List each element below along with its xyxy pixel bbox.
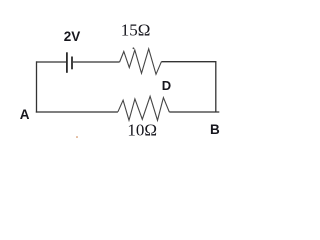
wire battery to resistor 15ohm <box>73 61 120 63</box>
wire left vertical (A side) <box>36 61 38 112</box>
svg-text:10Ω: 10Ω <box>127 120 157 139</box>
svg-text:A: A <box>20 107 30 122</box>
battery 2V cell: short plate <box>71 57 73 70</box>
wire resistor 10ohm to node B corner <box>169 111 219 113</box>
stray dot artifact <box>76 136 78 138</box>
wire resistor 15ohm to top-right corner <box>161 61 215 63</box>
wire right vertical (B side) <box>215 61 217 112</box>
wire top-left segment (node A side to battery) <box>37 61 67 63</box>
resistor R1 15ohm zigzag <box>120 49 162 74</box>
stray dot artifact above resistor 15ohm peak <box>133 47 135 49</box>
wire bottom-left segment (node A to resistor 10ohm) <box>36 111 118 113</box>
svg-text:2V: 2V <box>64 29 81 44</box>
battery 2V cell: long plate <box>66 52 68 73</box>
resistor R2 10ohm zigzag <box>118 96 169 120</box>
svg-text:B: B <box>210 122 220 137</box>
svg-text:15Ω: 15Ω <box>121 20 151 39</box>
svg-text:D: D <box>162 78 171 93</box>
